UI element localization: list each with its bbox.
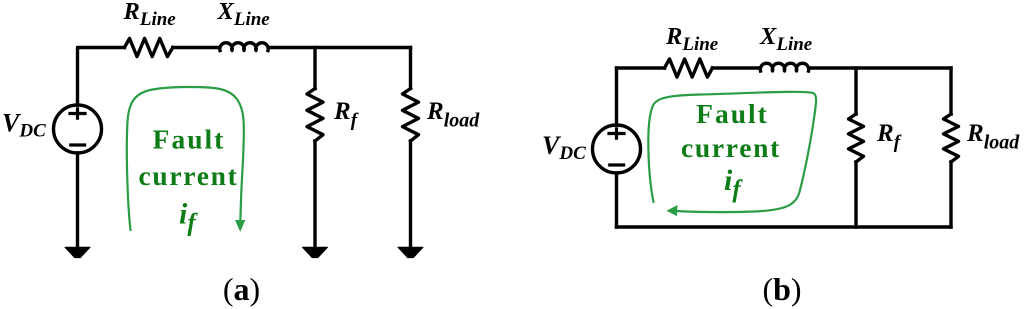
resistor R_f (a): [307, 89, 323, 142]
wire R_Line to X_Line (a): [173, 46, 219, 49]
svg-text:Rload: Rload: [966, 120, 1020, 154]
ground R_load branch (a): [398, 247, 423, 257]
svg-text:RLine: RLine: [665, 23, 719, 55]
svg-text:current: current: [139, 160, 239, 191]
inductor X_Line (b): [760, 63, 808, 71]
wire corner to R_load top (a): [409, 48, 412, 89]
wire source top to R_Line (a): [78, 48, 125, 106]
wire source bottom to ground (a): [76, 153, 79, 246]
svg-text:VDC: VDC: [542, 131, 586, 164]
svg-text:Rf: Rf: [333, 98, 359, 131]
resistor R_load (b): [944, 114, 959, 162]
svg-text:if: if: [179, 198, 198, 237]
resistor R_f (b): [849, 114, 864, 162]
svg-text:current: current: [681, 132, 781, 163]
wire junction to R_f top (a): [313, 48, 316, 89]
voltage source V_DC (a): [54, 105, 102, 153]
svg-text:RLine: RLine: [123, 0, 177, 30]
svg-text:(b): (b): [762, 271, 801, 307]
svg-text:XLine: XLine: [217, 0, 271, 30]
inductor X_Line (a): [220, 43, 268, 51]
svg-text:Fault: Fault: [696, 98, 769, 129]
svg-text:Fault: Fault: [153, 124, 226, 155]
fault current loop arrow (b): [648, 92, 816, 215]
wire corner to R_load top (b): [949, 68, 952, 114]
fault current loop arrow (a): [127, 87, 245, 231]
wire R_f to ground (a): [313, 141, 316, 246]
svg-text:Rload: Rload: [426, 98, 480, 132]
wire R_load to bottom wire (b): [949, 162, 952, 227]
resistor R_Line (a): [125, 38, 173, 56]
wire X_Line to top-right corner (b): [810, 66, 952, 69]
resistor R_Line (b): [665, 59, 713, 77]
svg-text:XLine: XLine: [759, 23, 813, 55]
ground source branch (a): [65, 247, 90, 257]
svg-text:Rf: Rf: [876, 120, 902, 153]
svg-text:if: if: [724, 164, 743, 203]
bottom return wire (b): [617, 225, 952, 228]
resistor R_load (a): [403, 89, 419, 142]
wire junction to R_f top (b): [854, 68, 857, 114]
voltage source V_DC (b): [593, 125, 641, 173]
ground R_f branch (a): [303, 247, 328, 257]
wire R_f to bottom wire (b): [854, 162, 857, 227]
wire X_Line to top-right corner (a): [269, 46, 411, 49]
svg-text:VDC: VDC: [2, 109, 46, 142]
svg-text:(a): (a): [223, 271, 260, 307]
wire source bottom to bottom wire (b): [615, 173, 618, 227]
wire top-left corner to R_Line (b): [617, 66, 665, 69]
wire R_load to ground (a): [409, 141, 412, 246]
wire source top to top-left corner (b): [615, 68, 618, 125]
wire R_Line to X_Line (b): [713, 66, 760, 69]
